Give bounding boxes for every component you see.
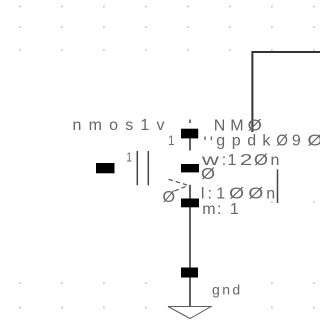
svg-text:'': '' bbox=[203, 133, 213, 152]
node 1 drain net label bbox=[168, 132, 174, 148]
wire drain lead bbox=[189, 138, 191, 150]
svg-text:Ø: Ø bbox=[254, 152, 268, 169]
wire right vertical segment bbox=[277, 169, 279, 203]
svg-text:Ø: Ø bbox=[308, 132, 320, 149]
svg-text:gpdk: gpdk bbox=[216, 132, 271, 149]
svg-text:Ø: Ø bbox=[276, 132, 288, 149]
label l:100n value bbox=[201, 186, 275, 203]
transistor NM0 source pin square bbox=[181, 199, 199, 208]
svg-text:2: 2 bbox=[240, 152, 253, 169]
transistor NM0 channel bar bbox=[147, 151, 149, 185]
transistor NM0 gate pin square bbox=[96, 163, 115, 173]
svg-text:Ø: Ø bbox=[163, 189, 176, 206]
node 0 source net label bbox=[163, 189, 176, 206]
node 0 flightline dash upper bbox=[169, 179, 189, 185]
svg-text:gnd: gnd bbox=[212, 282, 240, 298]
label m:1 value bbox=[202, 201, 239, 218]
label nmos1v cell name bbox=[73, 117, 165, 134]
transistor NM0 drain stub dash bbox=[189, 120, 191, 124]
node 1 gate net label bbox=[126, 150, 131, 165]
svg-text::1: :1 bbox=[222, 152, 237, 169]
wire source net 0 vertical run bbox=[189, 185, 191, 307]
svg-text:m:1: m:1 bbox=[202, 201, 239, 218]
svg-text:Ø: Ø bbox=[229, 186, 244, 203]
gnd label bbox=[212, 282, 240, 298]
svg-text:n: n bbox=[271, 152, 280, 169]
svg-text:nmos1v: nmos1v bbox=[73, 117, 165, 134]
label gpdk090 model bbox=[203, 132, 320, 152]
svg-text:l:1: l:1 bbox=[201, 186, 225, 203]
svg-text:Ø: Ø bbox=[248, 186, 263, 203]
node 0 bulk net label bbox=[201, 166, 215, 183]
svg-text:1: 1 bbox=[126, 150, 131, 165]
transistor NM0 drain pin square bbox=[181, 129, 198, 139]
svg-text:Ø: Ø bbox=[201, 166, 215, 183]
svg-text:1: 1 bbox=[168, 132, 174, 148]
label NM0 instance name bbox=[214, 118, 262, 135]
svg-text:9: 9 bbox=[292, 132, 301, 149]
label w:120n value bbox=[201, 152, 280, 169]
gnd pin square bbox=[181, 268, 198, 278]
ground symbol triangle bbox=[168, 307, 211, 319]
wire net vdd top-right corner bbox=[252, 52, 320, 132]
svg-text:n: n bbox=[266, 186, 275, 203]
transistor NM0 gate bar bbox=[136, 151, 138, 185]
node 0 flightline dash lower bbox=[175, 186, 189, 192]
transistor NM0 bulk pin square bbox=[181, 164, 199, 172]
